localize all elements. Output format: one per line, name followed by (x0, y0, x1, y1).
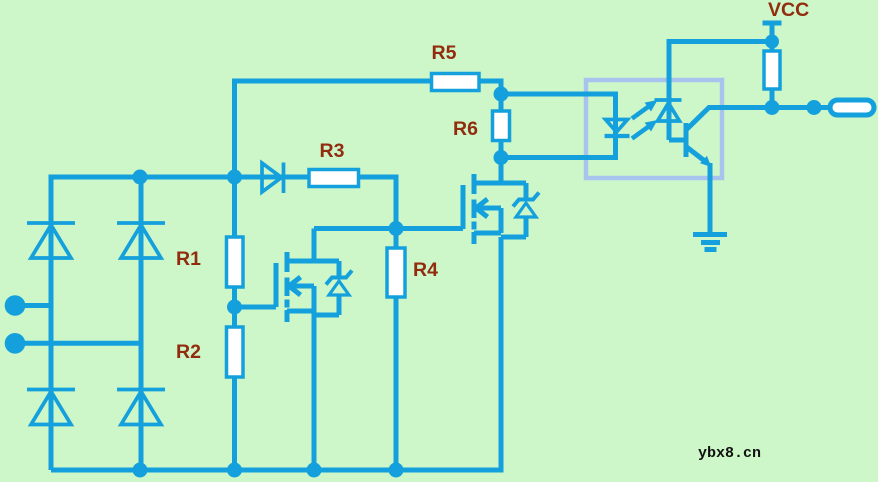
svg-text:R6: R6 (453, 118, 478, 140)
svg-text:VCC: VCC (768, 0, 809, 21)
svg-text:ybx8.cn: ybx8.cn (698, 445, 761, 462)
svg-text:R3: R3 (320, 140, 345, 162)
svg-text:R5: R5 (432, 42, 457, 64)
svg-text:R4: R4 (413, 259, 438, 281)
svg-text:R1: R1 (176, 248, 201, 270)
svg-text:R2: R2 (176, 341, 201, 363)
